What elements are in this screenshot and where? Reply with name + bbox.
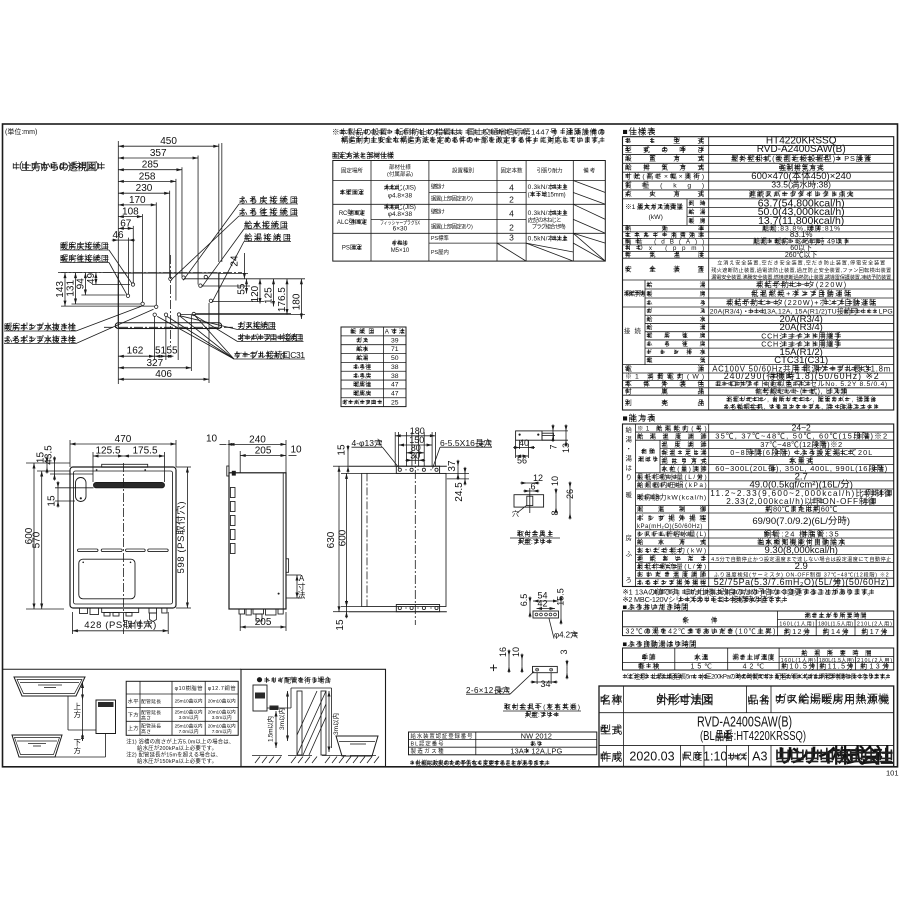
svg-text:(付属部品): (付属部品) <box>387 170 413 178</box>
vertical centerline <box>169 255 171 346</box>
svg-text:立消え安全装置,空だき安全装置,空だき防止装置,停電安全装置: 立消え安全装置,空だき安全装置,空だき防止装置,停電安全装置 <box>717 259 885 267</box>
side view A dim label <box>296 575 298 598</box>
bracket upper caption <box>517 532 521 534</box>
svg-text:■ふろおいだき時間: ■ふろおいだき時間 <box>623 603 689 612</box>
back view bottom line <box>349 611 447 613</box>
svg-text:木ねじ(JIS): 木ねじ(JIS) <box>384 202 416 211</box>
front view dim 43.5 <box>54 463 56 474</box>
svg-text:15.5: 15.5 <box>556 588 566 606</box>
updown dim line <box>82 683 84 742</box>
capability row 最低作動流量(L/分) <box>636 570 894 572</box>
svg-text:3.0m以内: 3.0m以内 <box>179 714 199 721</box>
capability table title 能力表 <box>631 416 636 418</box>
bottom section divider <box>2 668 241 670</box>
svg-text:(木下地15mm): (木下地15mm) <box>528 191 566 199</box>
dim extension left vertical <box>117 141 119 331</box>
spec table title 仕様表 <box>631 129 636 131</box>
svg-text:給水接続口: 給水接続口 <box>244 220 288 230</box>
svg-text:94: 94 <box>75 278 86 290</box>
title block grid <box>599 712 894 714</box>
svg-text:ふろポンプ水抜き栓: ふろポンプ水抜き栓 <box>4 334 76 344</box>
svg-text:・仕様は改良のため予告なく変更することがあります。: ・仕様は改良のため予告なく変更することがあります。 <box>410 758 550 767</box>
svg-text:凍結予防ヒータ(220W)+ポンプ自動運転: 凍結予防ヒータ(220W)+ポンプ自動運転 <box>726 298 876 307</box>
svg-text:ケーブル接続口C31: ケーブル接続口C31 <box>234 350 305 360</box>
svg-text:M5×10: M5×10 <box>391 248 410 254</box>
svg-text:〈ご注意〉上表は配管長5m、水圧200kPaの時の時間です。: 〈ご注意〉上表は配管長5m、水圧200kPaの時の時間です。配管が長くなれば所要… <box>623 672 891 681</box>
back view top line <box>349 465 447 467</box>
svg-text:108: 108 <box>122 207 139 218</box>
svg-text:20m10曲以内: 20m10曲以内 <box>208 698 236 705</box>
svg-text:160L(1人用): 160L(1人用) <box>779 620 814 627</box>
back view body outline phantom <box>362 473 446 606</box>
left dims horizontal extension top <box>61 272 118 274</box>
svg-text:リンナイ株式会社: リンナイ株式会社 <box>776 744 894 768</box>
svg-text:高さ: 高さ <box>141 728 151 735</box>
top view bottom dim 327 <box>118 367 191 369</box>
svg-text:210L(2人用): 210L(2人用) <box>857 620 892 627</box>
spec row ＮＯx (ppm) <box>623 250 894 252</box>
svg-text:A3: A3 <box>752 750 767 764</box>
bracket lower hole label 2 <box>498 688 503 690</box>
svg-text:取付金具上: 取付金具上 <box>517 529 553 538</box>
svg-text:給湯接続口: 給湯接続口 <box>244 232 291 242</box>
svg-text:143: 143 <box>55 281 66 298</box>
front view dim 470 <box>70 443 176 445</box>
svg-text:42: 42 <box>537 599 547 609</box>
capability subgroup 自動湯はり <box>641 449 645 451</box>
svg-text:49: 49 <box>86 273 97 285</box>
back view dim 37 <box>457 466 459 473</box>
top view dim 258 <box>118 180 176 182</box>
label ふろ往接続口 <box>239 210 244 212</box>
svg-text:47: 47 <box>391 390 399 397</box>
svg-text:15: 15 <box>335 619 346 631</box>
note ご注意 <box>623 675 627 677</box>
capability row ポンプ揚外揚程 <box>636 529 894 531</box>
side view bottom fittings <box>239 609 245 614</box>
torii dim 1.5m <box>275 711 277 748</box>
svg-text:水温: 水温 <box>694 653 708 662</box>
label 暖房往接続口 <box>60 256 65 258</box>
torii ground lines <box>252 755 282 757</box>
label 暖房ポンプ水抜き栓 <box>4 325 9 327</box>
capability row 湯はり方式 <box>660 464 894 466</box>
outer frame <box>3 124 898 767</box>
svg-text:浴室リモコン, 台所リモコン, 配管カバー, 据置台: 浴室リモコン, 台所リモコン, 配管カバー, 据置台 <box>726 396 876 404</box>
svg-text:季節: 季節 <box>642 653 656 662</box>
svg-text:ふろ往: ふろ往 <box>353 363 371 371</box>
top view vertical dim 24 <box>243 253 245 279</box>
svg-text:品名: 品名 <box>748 693 770 707</box>
svg-text:上方: 上方 <box>128 724 139 732</box>
unit front face strip <box>115 323 221 329</box>
svg-text:56: 56 <box>517 456 527 466</box>
horizontal centerline <box>58 272 242 274</box>
top view bottom dim 162-51-55 <box>118 355 173 357</box>
svg-text:176.5: 176.5 <box>277 287 288 312</box>
svg-text:は: は <box>626 464 633 472</box>
svg-text:約14分: 約14分 <box>823 627 849 636</box>
connection port circles <box>131 283 134 286</box>
back view dim 600 <box>346 473 348 606</box>
svg-text:φ4.2穴: φ4.2穴 <box>554 630 578 640</box>
capability row 給湯器内圧損(kPa) <box>636 488 894 490</box>
svg-text:285: 285 <box>142 160 159 171</box>
svg-text:43.5: 43.5 <box>44 445 55 465</box>
torii dim 3m left <box>287 691 289 741</box>
svg-text:55: 55 <box>166 346 178 357</box>
top view dim 108 <box>118 216 142 218</box>
piping lines <box>67 696 69 730</box>
svg-text:6×30: 6×30 <box>393 226 408 233</box>
bracket upper detail 1 <box>516 431 542 440</box>
svg-text:穴: 穴 <box>512 509 519 518</box>
svg-text:システム許容水量(L): システム許容水量(L) <box>637 529 706 538</box>
spec row 接続 <box>644 307 646 365</box>
front view oval window <box>76 478 87 502</box>
svg-text:470: 470 <box>115 434 132 445</box>
dim extension verticals <box>218 144 220 262</box>
svg-text:自動: 自動 <box>641 448 655 456</box>
svg-text:kPa(mH₂O)(50/60Hz): kPa(mH₂O)(50/60Hz) <box>637 524 702 530</box>
svg-text:25m10曲以内: 25m10曲以内 <box>175 709 203 716</box>
svg-text:8: 8 <box>550 510 560 515</box>
top view vertical dim 49 <box>95 273 97 285</box>
svg-text:450: 450 <box>160 136 177 147</box>
svg-text:給水装置認証登録番号: 給水装置認証登録番号 <box>411 732 474 740</box>
svg-text:給水圧が150kPa以上必要です。: 給水圧が150kPa以上必要です。 <box>137 757 217 765</box>
front view extension lines <box>69 440 71 467</box>
spec row 設置方式 <box>623 162 894 164</box>
front view exhaust slot <box>94 482 165 487</box>
piping length table <box>126 681 238 735</box>
svg-text:暖房往: 暖房往 <box>353 381 371 389</box>
svg-text:13: 13 <box>561 443 571 453</box>
capability row 連続おいだき <box>636 562 894 564</box>
centerline right extension <box>219 272 248 274</box>
svg-text:約12分: 約12分 <box>784 627 810 636</box>
svg-text:(BL品番:HT4220KRSSQ): (BL品番:HT4220KRSSQ) <box>700 729 806 743</box>
svg-text:給水: 給水 <box>356 345 369 353</box>
capability row 最低作動水量(L/分) <box>636 480 894 482</box>
svg-text:24.5: 24.5 <box>454 482 465 502</box>
spec row 本体外装色 <box>623 387 894 389</box>
back view dim extensions <box>394 432 396 466</box>
spec row 質量(kg) <box>623 189 894 191</box>
side view panel seam <box>282 473 284 609</box>
svg-text:6.5: 6.5 <box>519 594 529 607</box>
svg-text:製造ガス種: 製造ガス種 <box>411 747 445 755</box>
svg-text:RC壁固定: RC壁固定 <box>339 209 365 217</box>
svg-text:20m10曲以内: 20m10曲以内 <box>208 723 236 730</box>
capability row 湯温制御 <box>636 512 894 514</box>
svg-text:方: 方 <box>73 709 81 719</box>
svg-text:10: 10 <box>550 476 560 486</box>
svg-text:598 (PS取付穴): 598 (PS取付穴) <box>175 502 187 574</box>
svg-text:オーバーフロー接続口: オーバーフロー接続口 <box>238 332 304 342</box>
svg-text:湯はり: 湯はり <box>638 456 658 464</box>
svg-text:高さ: 高さ <box>141 715 151 722</box>
torii wall hatch <box>297 691 326 755</box>
svg-text:取付金具下(左右共通): 取付金具下(左右共通) <box>504 702 580 711</box>
top view bottom dim 406 <box>118 378 209 380</box>
front view top tab <box>102 464 148 467</box>
svg-text:50: 50 <box>391 355 399 362</box>
svg-text:357: 357 <box>150 148 167 159</box>
svg-text:13A・12A,LPG: 13A・12A,LPG <box>510 747 562 756</box>
connection size table <box>341 327 406 407</box>
side view dim 205 top <box>240 455 286 457</box>
svg-text:3.0m以内: 3.0m以内 <box>212 714 232 721</box>
svg-text:69/90(7.0/9.2)(6L/分時): 69/90(7.0/9.2)(6L/分時) <box>752 516 850 527</box>
spec row 最大ガス消費量 <box>686 199 688 226</box>
svg-text:配管延長: 配管延長 <box>141 698 161 705</box>
top view vertical dim 125 <box>273 279 275 307</box>
top view vertical dim 180 <box>300 279 302 319</box>
spec row 凍結予防 <box>644 280 646 307</box>
port row extension lines right <box>202 285 250 287</box>
svg-text:り: り <box>626 474 632 482</box>
capability row システム許容水量(L) <box>636 537 894 539</box>
svg-text:71: 71 <box>391 346 399 353</box>
svg-text:ユーロホワイト(近似色:マンセルNo. 5.2Y 8.5/0: ユーロホワイト(近似色:マンセルNo. 5.2Y 8.5/0.4) <box>715 379 887 388</box>
torii pipe <box>267 707 291 709</box>
bracket lower caption <box>504 705 508 707</box>
svg-text:ALC壁固定: ALC壁固定 <box>337 218 367 226</box>
svg-text:給: 給 <box>626 425 633 434</box>
capability row おいだき温度調節 <box>636 577 894 579</box>
svg-text:230: 230 <box>136 183 153 194</box>
svg-text:24: 24 <box>230 255 241 267</box>
svg-text:水平: 水平 <box>128 697 140 705</box>
back view centerline <box>414 455 416 625</box>
svg-text:PS屋内: PS屋内 <box>431 248 449 256</box>
svg-text:φ12.7銅管: φ12.7銅管 <box>208 684 236 692</box>
svg-text:ふ: ふ <box>626 550 633 558</box>
svg-text:トリイ配管を行う場合: トリイ配管を行う場合 <box>264 676 331 685</box>
top view vertical dim 143 <box>64 273 66 307</box>
label 給水接続口 <box>244 223 249 225</box>
top view dim 170 <box>118 204 156 206</box>
svg-text:4: 4 <box>509 209 514 219</box>
svg-text:170: 170 <box>129 195 146 206</box>
spec row ※1 消費電力(W) <box>623 379 894 381</box>
svg-text:注2) 配管延長が15mを超える場合は、: 注2) 配管延長が15mを超える場合は、 <box>126 751 221 759</box>
bracket lower detail 2 <box>533 666 558 672</box>
svg-text:2.9: 2.9 <box>795 561 808 572</box>
svg-text:(左記の木ねじと: (左記の木ねじと <box>528 216 562 224</box>
svg-text:沸き上げ温度: 沸き上げ温度 <box>732 653 774 662</box>
svg-text:固定本数: 固定本数 <box>501 167 523 175</box>
svg-text:10: 10 <box>511 647 521 657</box>
svg-text:52/75Pa(5.3/7.6mH₂O)(5L/分)(50/: 52/75Pa(5.3/7.6mH₂O)(5L/分)(50/60Hz) <box>714 577 889 587</box>
back view dim 24.5 <box>464 473 466 479</box>
capability row 温度調節 <box>660 447 894 449</box>
svg-text:0.5kN/本以上: 0.5kN/本以上 <box>528 234 569 243</box>
spec row 型式の呼び <box>623 153 894 155</box>
bracket upper dim 56 <box>516 455 529 457</box>
capability row 保温・足し湯 <box>660 456 894 458</box>
svg-text:暖房ポンプ水抜き栓: 暖房ポンプ水抜き栓 <box>4 322 76 332</box>
capability row 暖房能力 <box>636 505 894 507</box>
svg-text:0.3kN/本以上: 0.3kN/本以上 <box>528 208 569 217</box>
capability row 給水方式 <box>636 545 894 547</box>
svg-text:15: 15 <box>337 444 348 456</box>
installation note line1 <box>339 130 344 132</box>
svg-text:A寸法: A寸法 <box>385 328 405 336</box>
svg-text:3: 3 <box>509 233 514 243</box>
svg-text:2: 2 <box>509 223 514 233</box>
back view dim 15 top <box>347 452 349 467</box>
table title ふろおいだき時間 <box>630 605 635 607</box>
svg-text:暖房戻: 暖房戻 <box>353 389 371 397</box>
unit body outline top view <box>118 273 219 329</box>
fixation rows labels <box>340 191 344 193</box>
top view vertical dim 176.5 <box>286 279 288 315</box>
svg-text:■仕様表: ■仕様表 <box>623 127 656 137</box>
back view dim 180 <box>395 435 435 437</box>
svg-text:25: 25 <box>391 399 399 406</box>
svg-text:約10.5分: 約10.5分 <box>781 661 815 670</box>
svg-text:約17分: 約17分 <box>861 627 887 636</box>
torii dim 3m right <box>328 691 330 752</box>
front view dim 570 <box>41 471 43 609</box>
svg-text:125.5: 125.5 <box>95 446 120 457</box>
front view inner panel <box>74 471 173 604</box>
svg-text:信号線セット(一式), ビス類: 信号線セット(一式), ビス類 <box>755 387 847 396</box>
svg-text:260℃以下: 260℃以下 <box>785 251 818 259</box>
svg-text:2-6×12長穴: 2-6×12長穴 <box>466 685 510 695</box>
svg-text:RVD-A2400SAW(B): RVD-A2400SAW(B) <box>697 714 792 731</box>
svg-text:暖房往接続口: 暖房往接続口 <box>60 253 109 263</box>
side view vents <box>230 488 235 498</box>
svg-text:55: 55 <box>237 283 248 295</box>
svg-text:60以下: 60以下 <box>790 244 812 252</box>
svg-text:PS標準: PS標準 <box>431 234 449 242</box>
front view dim 15 top <box>46 463 48 467</box>
svg-text:オーバーフロー: オーバーフロー <box>342 399 382 406</box>
label ガス接続口 <box>238 323 243 325</box>
svg-text:固定方法と部材仕様: 固定方法と部材仕様 <box>332 150 395 160</box>
svg-text:備考: 備考 <box>583 167 595 175</box>
svg-text:方: 方 <box>73 745 81 755</box>
back view top bracket <box>396 466 439 473</box>
spec change note <box>410 761 414 763</box>
svg-text:尺度:フリー: 尺度:フリー <box>518 537 552 546</box>
top view dim 450 <box>118 145 219 147</box>
svg-text:プラグ組合せ時): プラグ組合せ時) <box>532 223 566 231</box>
torii title <box>257 677 262 682</box>
svg-text:406: 406 <box>155 369 172 380</box>
spec row 騒音 (dB(A)) <box>623 244 894 246</box>
svg-text:■ふろ自動湯はり時間: ■ふろ自動湯はり時間 <box>623 639 697 649</box>
side view extension lines <box>228 440 230 473</box>
torii heater unit <box>253 685 267 711</box>
front view dim 598 PS <box>186 467 188 608</box>
svg-text:作成: 作成 <box>600 751 622 764</box>
svg-text:沸き上がり所要時間: 沸き上がり所要時間 <box>805 611 867 620</box>
capability row ※1 給湯能力(号) <box>636 431 894 433</box>
svg-text:寸法(高さ×幅×奥行): 寸法(高さ×幅×奥行) <box>625 171 704 180</box>
spec row 安全装置 <box>623 279 894 281</box>
svg-text:34: 34 <box>540 679 550 689</box>
bracket upper dim 7/13 <box>552 431 554 436</box>
svg-text:(単位:mm): (単位:mm) <box>5 127 37 136</box>
svg-text:38: 38 <box>391 373 399 380</box>
svg-text:給湯: 給湯 <box>356 354 368 362</box>
back view dim 30 <box>412 459 419 461</box>
bracket lower hole label <box>572 633 577 635</box>
spec row 別売品 <box>625 401 629 403</box>
svg-text:3: 3 <box>559 649 569 654</box>
spec row エネルギー消費効率 <box>623 237 894 239</box>
svg-text:尺度:フリー: 尺度:フリー <box>525 710 559 719</box>
spec row 熱効率 <box>623 231 894 233</box>
back view dim 80 <box>406 452 424 454</box>
side view body <box>229 473 286 609</box>
svg-text:38: 38 <box>391 364 399 371</box>
svg-text:175.5: 175.5 <box>132 446 157 457</box>
svg-text:2020.03: 2020.03 <box>629 750 674 764</box>
svg-text:6-5.5X16長穴: 6-5.5X16長穴 <box>440 438 492 448</box>
svg-text:6: 6 <box>530 482 535 492</box>
bracket upper detail 2 <box>514 495 544 507</box>
svg-text:φ4.8×38: φ4.8×38 <box>388 211 413 218</box>
svg-text:構造耐力上安全な構造方法を定める件の一部を改定する件」に対応: 構造耐力上安全な構造方法を定める件の一部を改定する件」に対応しています。 <box>341 135 605 145</box>
svg-text:40: 40 <box>519 438 529 448</box>
svg-text:据置(上部固定あり): 据置(上部固定あり) <box>431 195 473 203</box>
spec row 給排気方式 <box>623 171 894 173</box>
bracket lower datum mark <box>490 667 497 669</box>
svg-text:3m以内: 3m以内 <box>331 713 340 735</box>
svg-text:0.3kN/本以上: 0.3kN/本以上 <box>528 182 569 191</box>
svg-text:φ10樹脂管: φ10樹脂管 <box>175 684 203 692</box>
svg-text:ふろポンプ揚外揚程: ふろポンプ揚外揚程 <box>637 578 707 587</box>
top view vertical dim 120 <box>259 279 261 304</box>
svg-text:・: ・ <box>626 446 632 453</box>
svg-text:3m以内: 3m以内 <box>277 708 286 730</box>
torii bathtub <box>336 736 378 756</box>
top view dim 67 <box>118 227 133 229</box>
capability table frame <box>623 424 894 587</box>
svg-text:180L(1.5人用): 180L(1.5人用) <box>818 620 853 627</box>
note ※2 <box>679 597 684 599</box>
label ふろポンプ水抜き栓 <box>4 337 9 339</box>
svg-text:給湯器内圧損(kPa): 給湯器内圧損(kPa) <box>637 480 707 489</box>
svg-text:205: 205 <box>255 617 272 628</box>
svg-text:最低作動流量(L/分): 最低作動流量(L/分) <box>637 562 706 571</box>
svg-text:ガス接続口: ガス接続口 <box>238 320 277 330</box>
svg-text:壁掛け: 壁掛け <box>431 208 445 216</box>
bathtub lower <box>12 735 62 757</box>
back view dim 630 <box>338 466 340 612</box>
450 extension far right <box>221 143 223 262</box>
svg-text:房: 房 <box>626 533 632 542</box>
svg-text:51: 51 <box>155 346 167 357</box>
svg-text:尺度: 尺度 <box>682 750 702 763</box>
left dims port extension lines <box>92 284 130 286</box>
svg-text:木壁固定: 木壁固定 <box>340 189 364 197</box>
svg-text:配管延長: 配管延長 <box>141 723 161 730</box>
svg-text:20m10曲以内: 20m10曲以内 <box>208 709 236 716</box>
title block frame <box>599 686 894 767</box>
svg-text:保温・足し湯: 保温・足し湯 <box>662 448 708 457</box>
back view bottom bracket <box>396 605 439 612</box>
installation note line2 <box>341 138 346 140</box>
svg-text:春・秋: 春・秋 <box>638 661 660 670</box>
bottom dim extension verticals <box>153 316 155 360</box>
svg-text:接: 接 <box>624 326 631 335</box>
